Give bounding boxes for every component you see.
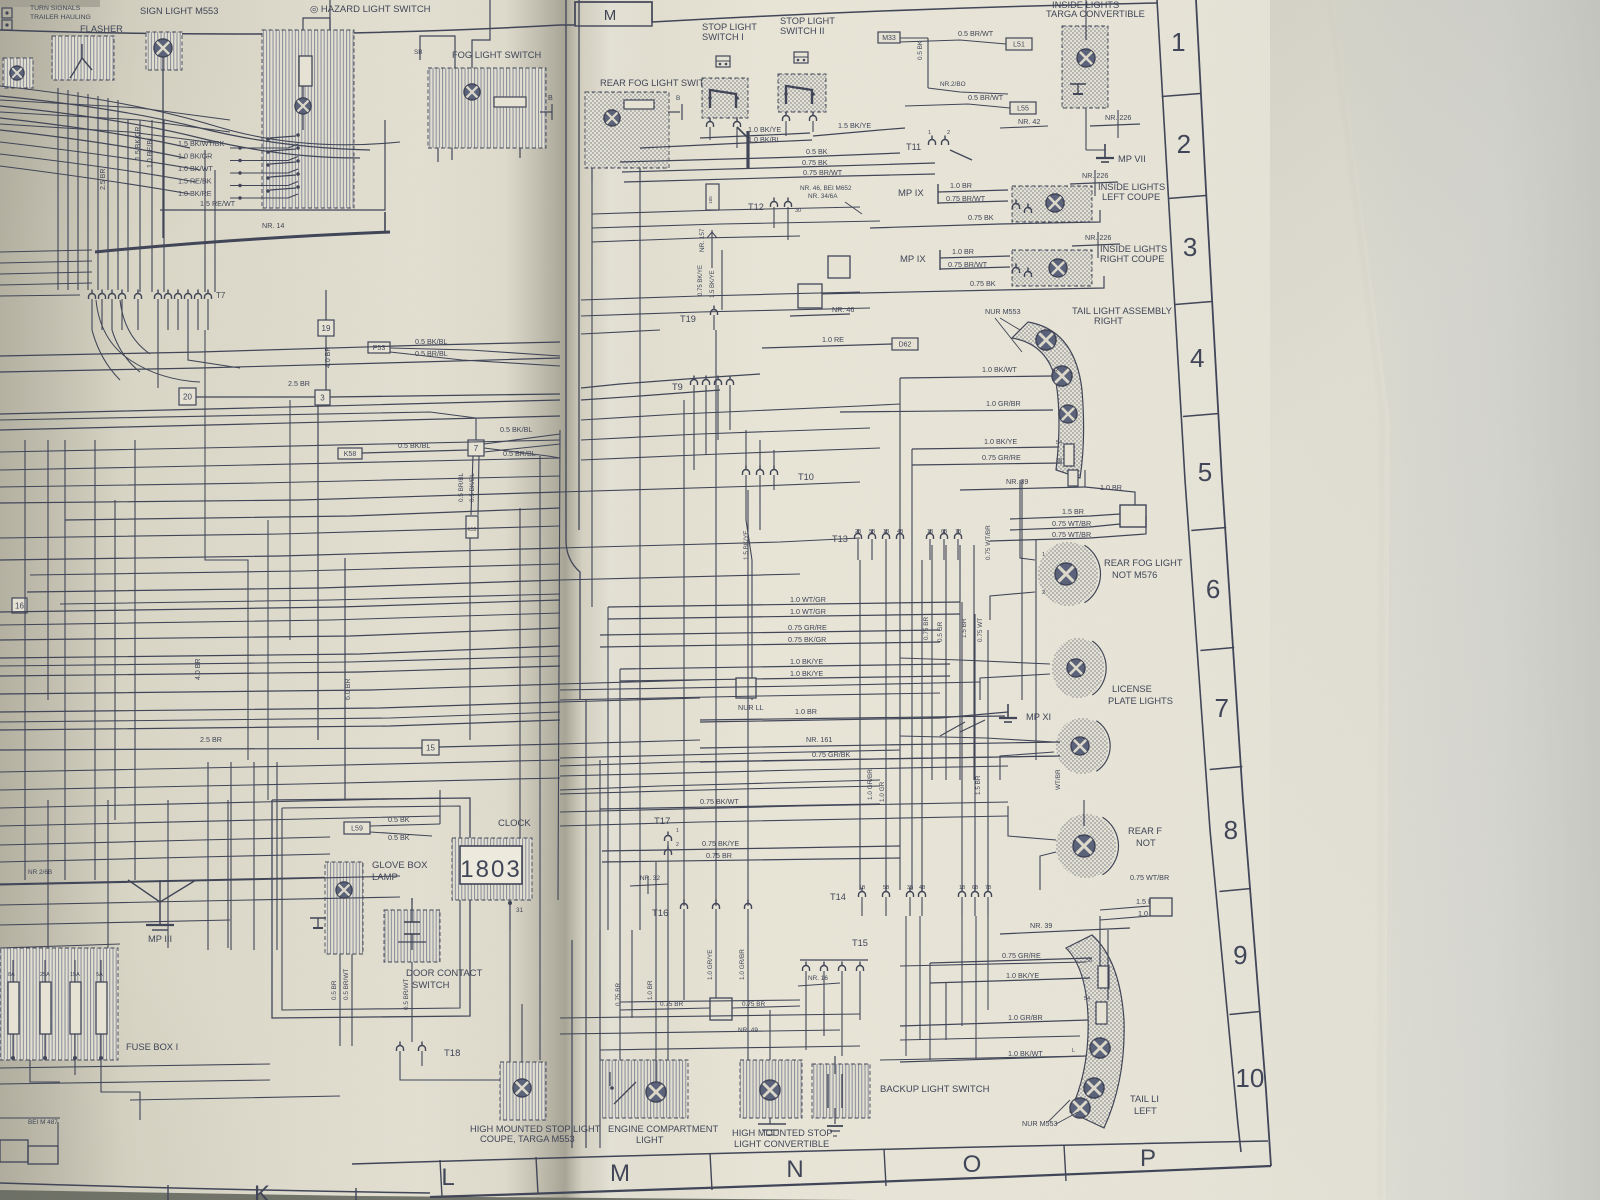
fuse 19 box: [318, 320, 334, 336]
stop II contacts: [784, 86, 815, 104]
letter row top border: [352, 1141, 1268, 1164]
right low horizontals: [880, 962, 1086, 1060]
nr32 label: [630, 875, 668, 894]
left mid more horizontals: [0, 476, 560, 722]
tail right label: [1072, 306, 1172, 326]
rear fog light switch label: [600, 78, 718, 88]
bus 20-3 wire: [196, 379, 560, 397]
junction 7 down wires: [458, 456, 479, 515]
hazard pin wires: [302, 86, 304, 130]
right blank page area: [1335, 0, 1600, 1200]
door wires down: [403, 962, 412, 1042]
clock display: [460, 846, 522, 884]
engine light switch: [610, 1072, 636, 1104]
nr157 label: [699, 228, 717, 268]
k58 box: [338, 448, 362, 459]
nr16 wire: [798, 975, 840, 986]
left coupe body: [1012, 186, 1092, 222]
mid horizontal group b: [0, 580, 560, 658]
clock hatch: [452, 838, 532, 900]
left coupe return: [870, 210, 1100, 228]
high mount stop hatch: [500, 1062, 546, 1120]
engine light lamp: [646, 1082, 666, 1102]
tail left label: [1130, 1094, 1159, 1116]
left mid verticals extra: [205, 330, 290, 800]
hazard resistor: [299, 56, 312, 86]
l59 box: [344, 822, 370, 834]
lower cross wires: [560, 740, 1060, 826]
hms conv body: [740, 1060, 802, 1118]
mid long horizontals: [560, 482, 860, 702]
glove box label: [372, 860, 428, 883]
bk labels row: [802, 147, 843, 177]
nr226 targa: [1090, 110, 1140, 138]
t14 down verticals: [906, 916, 988, 1060]
tail left lamp1: [1090, 1038, 1110, 1058]
stop II icon: [794, 52, 808, 63]
glove wires down: [331, 954, 352, 1046]
rear fog right lamp: [1055, 563, 1077, 585]
left short horizontals: [0, 250, 92, 296]
p53 box: [368, 342, 390, 353]
rear fog switch body: [585, 92, 669, 168]
left top horizontals extra: [0, 100, 230, 143]
fog feed labels: [1052, 507, 1091, 539]
targa cap: [1070, 84, 1086, 94]
bm vertical wires: [620, 862, 860, 1082]
tail right lamp3: [1059, 405, 1077, 423]
right mid horizontals: [560, 682, 980, 700]
stop wires labels: [748, 121, 871, 144]
hazard switch contacts: [266, 133, 300, 193]
l55 wire: [905, 93, 1048, 128]
tail left res2: [1084, 996, 1107, 1024]
rear fog pins: [592, 95, 682, 182]
upper mid extra horizontals: [581, 292, 870, 334]
t18 wires: [400, 1051, 500, 1080]
sign light wires: [162, 57, 164, 238]
stop I icon: [716, 56, 730, 67]
rear fog right blob: [1038, 542, 1101, 606]
rear fog left blob: [1056, 814, 1119, 878]
backup feed box: [620, 998, 800, 1034]
rear fog lamp: [604, 110, 620, 126]
tail left lamp2: [1084, 1078, 1104, 1098]
engine light label: [608, 1124, 719, 1145]
br 10 wire: [700, 707, 1005, 720]
tail left crescent: [1066, 935, 1124, 1128]
re/wt feed wire: [160, 120, 385, 210]
turn signal bus verticals: [58, 88, 118, 290]
t16 row: [652, 900, 752, 931]
right coupe label: [1100, 244, 1167, 264]
bottom left corner shading: [0, 920, 300, 1200]
door contact hatch: [384, 910, 440, 962]
mp ix 2: [900, 247, 1010, 270]
number column right border: [1196, 0, 1271, 1166]
backbone verticals mid: [592, 180, 748, 930]
tail left wires: [900, 951, 1092, 1062]
right coupe body: [1012, 250, 1092, 286]
glove box hatch: [325, 862, 363, 954]
bm vert labels: [615, 949, 746, 1006]
grid letter M top box: [575, 2, 652, 26]
p53 wires: [390, 337, 560, 366]
mid bottom grid horizontals: [560, 1000, 860, 1050]
hazard feed wires: [303, 0, 490, 68]
tail right crescent: [1012, 322, 1084, 478]
nr161 wire: [700, 735, 1060, 762]
upper left drop curves: [96, 300, 200, 382]
grid letters M N O P: [440, 1145, 1156, 1197]
tail right lamp1: [1036, 330, 1056, 350]
mp3 feed line: [0, 869, 345, 884]
left coupe conns: [1013, 200, 1032, 214]
rot vert labels bm: [867, 769, 1062, 802]
right page crease: [1330, 0, 1382, 1200]
selector contact rows: [178, 139, 298, 200]
targa wires: [1086, 0, 1146, 164]
t7 label: [216, 291, 226, 300]
license wires: [900, 658, 1054, 780]
turn bus extra verticals: [128, 120, 215, 292]
bus wire labels rot: [100, 127, 154, 190]
l51 box: [1006, 38, 1032, 50]
l51 wire: [900, 29, 1006, 44]
right coupe lamp: [1049, 259, 1067, 277]
left vertical grid: [25, 440, 135, 880]
fog light switch label: [452, 50, 541, 60]
t18 connectors: [397, 1042, 461, 1060]
tail right lamp2: [1052, 366, 1072, 386]
clock label: [498, 818, 531, 829]
mid horizontal group a: [0, 492, 560, 560]
rear fog right label: [1104, 558, 1183, 580]
right coupe return: [815, 276, 1104, 294]
top right shading: [1270, 0, 1600, 1200]
long horizontals upper: [0, 342, 560, 430]
glove cap symbol: [310, 918, 326, 928]
page fold shadow: [505, 0, 655, 1200]
license label: [1108, 684, 1173, 706]
hazard drop bus: [0, 0, 1, 1]
stop light switch II label: [780, 16, 835, 36]
turn indicator lamp: [3, 58, 33, 88]
fuse 3 box: [315, 390, 330, 405]
junction box a: [828, 256, 850, 278]
rot labels t19: [698, 250, 722, 310]
stop I body: [702, 78, 748, 118]
nur m553 right note: [985, 307, 1030, 352]
big wire loop: [272, 798, 470, 1018]
mid upper horizontals extra: [592, 207, 880, 242]
junction 7 box: [468, 440, 484, 456]
grid number cells 1-10: [1162, 27, 1265, 1093]
junction 7 top wire: [0, 412, 476, 440]
door contact label: [406, 968, 483, 991]
hms conv cap: [758, 1118, 786, 1135]
left bottom horizontals extra: [0, 876, 400, 1100]
rear fog pins: [990, 480, 1045, 620]
rot labels mid: [195, 659, 352, 700]
license lamp 1: [1052, 638, 1106, 698]
re wire d62: [762, 335, 918, 350]
bk wire runs: [620, 153, 935, 182]
glove box lamp: [336, 882, 352, 898]
stop II body: [778, 74, 826, 112]
clock pin: [508, 900, 524, 930]
fusebox fuses: [8, 960, 107, 1060]
left bottom verticals: [208, 762, 277, 950]
t15 row: [800, 938, 868, 990]
bottom edge shadow: [0, 1190, 860, 1200]
left harness sweep: [0, 96, 370, 158]
tail left lamp3: [1070, 1098, 1090, 1118]
fog switch pins: [438, 93, 553, 162]
nr14 bus: [95, 221, 390, 252]
left page bottom letter row: [0, 1181, 430, 1200]
mid feed wires: [581, 374, 760, 400]
tail left res1: [1086, 958, 1109, 988]
long label wires mid: [600, 595, 960, 647]
m33 wire: [900, 38, 1008, 94]
hms conv lamp: [760, 1080, 780, 1100]
fold edge wires: [566, 0, 580, 700]
tail right wires: [840, 365, 1062, 465]
mid vertical wires: [318, 405, 560, 1060]
stop I pins: [707, 118, 741, 149]
stop light switch I label: [702, 22, 757, 42]
t7 stub wires: [92, 299, 208, 330]
left long horizontals lower: [0, 760, 560, 862]
vert cluster labels: [923, 525, 992, 642]
fog switch resistor: [494, 97, 526, 107]
mp ix 1: [898, 181, 1008, 204]
targa body: [1062, 26, 1108, 108]
box15 wires: [0, 735, 560, 750]
left harness curves: [0, 86, 400, 194]
hms conv label: [732, 1128, 833, 1149]
nr226 right coupe: [1072, 232, 1120, 258]
fog feed wires: [990, 514, 1146, 541]
tail right resistors: [1064, 444, 1078, 486]
t19 connector: [680, 306, 718, 331]
hazard lamp: [295, 98, 311, 114]
t13 row: [832, 529, 962, 560]
left coupe lamp: [1046, 194, 1064, 212]
backup label: [880, 1084, 990, 1095]
nr226 left coupe: [1070, 170, 1118, 196]
top left corner shading: [0, 0, 330, 280]
sign light lamp: [146, 32, 182, 70]
turn signals trailer hauling label: [30, 5, 91, 21]
mid horizontals extra: [560, 750, 1008, 812]
flasher relay K1: [52, 36, 114, 80]
t12 pair: [748, 198, 801, 241]
high mount stop lamp: [513, 1079, 531, 1097]
rear fog resistor: [624, 100, 654, 109]
top frame line: [0, 2, 1157, 34]
t11 switch: [906, 130, 972, 160]
t7 connector row: [89, 290, 212, 300]
backup switch body: [812, 1064, 870, 1118]
t7 fanout: [92, 330, 240, 388]
bk ye wires: [620, 657, 950, 681]
sign light label: [140, 6, 218, 16]
mid bottom labels a: [600, 797, 880, 809]
tail junction box: [1120, 505, 1146, 527]
rear fog left wires: [1008, 800, 1169, 890]
junction 7 right wires: [484, 425, 560, 458]
rear fog left label: [1128, 826, 1162, 848]
l55 box: [1010, 102, 1036, 114]
backup switch symbol: [827, 1056, 843, 1136]
mp xi ground: [700, 704, 1051, 736]
vert cluster mid: [932, 480, 1036, 780]
stop I contacts: [708, 90, 739, 108]
heavy bus drop: [384, 212, 386, 232]
t9 row: [672, 376, 734, 401]
l59 wires: [370, 790, 440, 842]
junction box b: [790, 284, 854, 316]
left half horizontals extra2: [0, 440, 560, 666]
fuse 20 box: [179, 388, 196, 405]
high mount label: [470, 1124, 601, 1144]
engine light body: [600, 1060, 688, 1118]
left coupe label: [1098, 182, 1165, 202]
tail left junction: [1150, 898, 1172, 916]
hazard switch body: [262, 30, 354, 208]
fold bottom wires: [572, 700, 600, 1148]
trailer connector icons: [2, 8, 12, 30]
box 16 left: [12, 598, 27, 613]
box 15: [422, 740, 439, 755]
fusebox hatch: [0, 948, 118, 1060]
t10 feed: [743, 490, 760, 700]
nur m553 left: [1022, 1100, 1078, 1128]
bottom-left long wires: [0, 800, 400, 948]
t14 row: [830, 885, 992, 916]
nr39 wire: [960, 470, 1135, 505]
nr39 left: [1000, 897, 1160, 934]
door contact symbol: [398, 898, 426, 950]
stop II pins: [783, 112, 817, 137]
nl5 box: [706, 184, 719, 210]
left edge shading: [0, 0, 120, 1200]
mid bottom verticals: [600, 862, 668, 1060]
hazard light switch label: [310, 4, 431, 15]
t10 row: [743, 466, 814, 491]
mid horizontal group c: [0, 666, 560, 730]
clock drop wire: [510, 930, 522, 1062]
k55 box: [466, 516, 478, 538]
letter row bottom frame: [430, 1166, 1271, 1197]
mp3 ground node: [128, 880, 196, 944]
mid bottom labels b: [602, 839, 900, 862]
flasher label: [80, 24, 123, 34]
top edge strip: [0, 0, 100, 7]
nur ll box: [736, 678, 764, 712]
heavy bus bar: [737, 127, 748, 168]
tail left feed verticals: [930, 916, 1108, 1060]
k58 wire: [362, 441, 468, 453]
cross wires upper mid: [581, 404, 900, 460]
m33 box: [878, 32, 900, 43]
targa label: [1046, 0, 1145, 19]
fog light switch body: [428, 68, 546, 148]
stop wire runs: [640, 128, 905, 148]
nr46 note: [800, 185, 862, 214]
targa lamp: [1077, 49, 1095, 67]
corner boxes: [0, 1122, 58, 1164]
right coupe conns: [1013, 264, 1032, 278]
fog switch lamp: [464, 84, 480, 100]
fusebox label: [126, 1042, 178, 1052]
t17 connector: [654, 816, 679, 862]
bei m487 label: [0, 1118, 60, 1126]
backbone verticals right: [860, 378, 988, 890]
t9 t10 drop wires: [694, 400, 774, 470]
fusebox exit wires: [30, 1058, 140, 1120]
license lamp 2: [1056, 718, 1110, 774]
number column left border: [1157, 0, 1241, 1152]
fuse 19 wires: [325, 290, 332, 390]
